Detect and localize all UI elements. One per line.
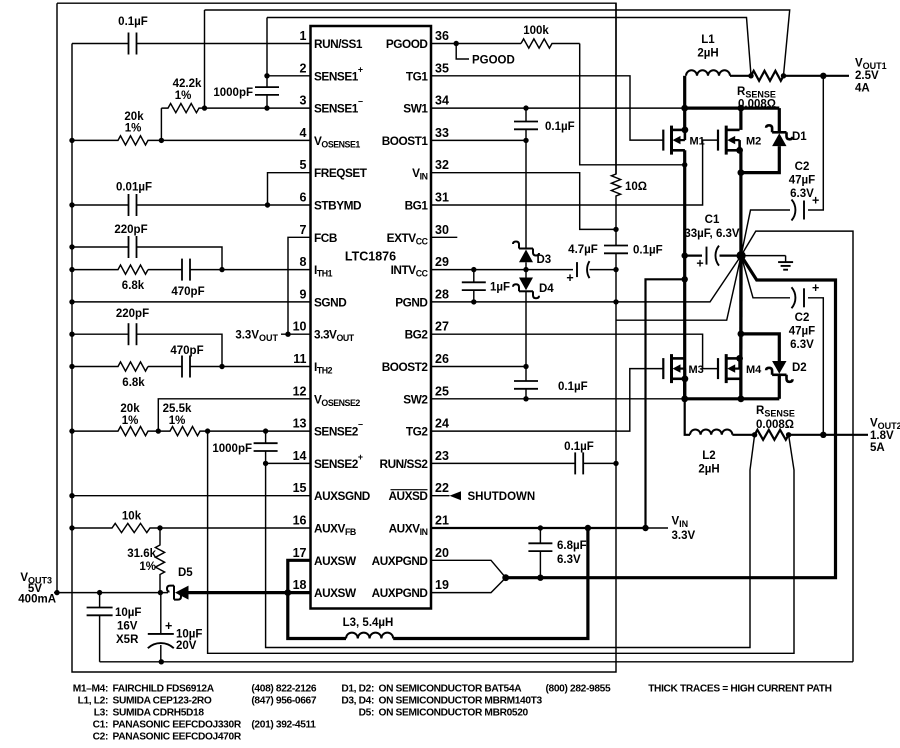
svg-text:M1–M4:: M1–M4:: [73, 684, 108, 695]
svg-text:13: 13: [293, 417, 307, 431]
wire SW2 row pin25: [431, 398, 685, 400]
wire M4 drain to SW2 row: [739, 379, 742, 399]
svg-text:C2: C2: [795, 161, 810, 173]
svg-text:(847) 956-0667: (847) 956-0667: [251, 696, 316, 707]
node junction VOUT3 at rail x57: [54, 590, 59, 595]
svg-text:BG1: BG1: [405, 199, 429, 213]
node junction ITH1 row: [219, 267, 224, 272]
resistor 20k 1% (feedback divider bottom ch1): [72, 136, 161, 145]
node junction 31.6k bottom / 10uF 20V top: [158, 590, 163, 595]
capacitor 0.1uF (VIN RC): [615, 229, 617, 245]
node junction AUXVIN to drain rail riser: [642, 525, 648, 531]
node junction SW1 boost cap: [523, 105, 528, 110]
svg-text:9: 9: [300, 287, 307, 301]
svg-text:33: 33: [435, 126, 449, 140]
ground symbol at star: [741, 255, 786, 257]
svg-text:C2:: C2:: [93, 732, 108, 743]
svg-text:2: 2: [300, 61, 307, 75]
svg-text:470pF: 470pF: [170, 345, 203, 357]
svg-text:1%: 1%: [122, 415, 139, 427]
svg-text:D5: D5: [178, 567, 193, 579]
svg-text:+: +: [812, 194, 819, 208]
svg-text:25.5k: 25.5k: [163, 403, 192, 415]
svg-text:21: 21: [435, 514, 449, 528]
wire line C: SENSE1+ to RSENSE left terminal (kelvin): [267, 18, 751, 76]
svg-text:34: 34: [435, 94, 449, 108]
svg-text:1%: 1%: [139, 561, 156, 573]
svg-text:400mA: 400mA: [18, 594, 56, 606]
svg-text:6.8k: 6.8k: [122, 377, 145, 389]
svg-text:(800) 282-9855: (800) 282-9855: [546, 684, 611, 695]
node junction 10uF20V to bus: [159, 659, 164, 664]
capacitor 0.1uF (RUN/SS1 soft-start): [72, 43, 128, 45]
wire star to C2 top (VOUT1 bulk cap): [741, 210, 790, 256]
svg-text:2µH: 2µH: [697, 48, 718, 60]
svg-text:D3, D4:: D3, D4:: [341, 696, 374, 707]
svg-text:D2: D2: [792, 362, 807, 374]
resistor 6.8k (ITH2): [72, 362, 148, 371]
node junction ITH2 row: [219, 364, 224, 369]
wire AUXSGND row pin15: [72, 495, 311, 497]
node junction VOUT1: [820, 73, 826, 79]
node junction M3 SW2: [681, 395, 688, 402]
node junction 10uF 16V cap top: [97, 590, 102, 595]
wire BOOST1 chain down to D3 cathode: [525, 140, 527, 248]
svg-text:16V: 16V: [117, 621, 138, 633]
svg-text:PANASONIC EEFCDOJ470R: PANASONIC EEFCDOJ470R: [113, 732, 242, 743]
wire PGND row pin28 to star ground: [431, 256, 741, 302]
node junction 42.2k right end SENSE1-: [202, 105, 207, 110]
wire VOSENSE1 row to IC: [161, 139, 310, 141]
resistor 25.5k 1% (divider ch2): [158, 427, 207, 436]
svg-text:TG2: TG2: [406, 425, 428, 439]
svg-text:5: 5: [300, 158, 307, 172]
wire SENSE1+ row: [267, 75, 311, 77]
svg-text:19: 19: [435, 578, 449, 592]
wire RSENSE to VOUT1: [784, 75, 850, 77]
svg-text:31: 31: [435, 191, 449, 205]
svg-text:42.2k: 42.2k: [173, 78, 202, 90]
resistor 6.8k (ITH1): [72, 265, 148, 274]
svg-text:0.1µF: 0.1µF: [564, 441, 594, 453]
svg-text:6.8µF: 6.8µF: [557, 540, 587, 552]
capacitor 220pF (ITH2 compensation): [72, 333, 128, 335]
wire SGND row pin9: [72, 301, 311, 303]
diode D1 schottky (catch ch1): [741, 146, 779, 173]
node junction BOOST1: [523, 138, 528, 143]
wire FCB pin7 tied down to 3.3VOUT pin10: [288, 237, 311, 334]
node junction AUXPGND tie: [502, 574, 509, 581]
svg-text:ON SEMICONDUCTOR BAT54A: ON SEMICONDUCTOR BAT54A: [379, 684, 523, 695]
svg-text:11: 11: [293, 352, 306, 366]
wire VOSENSE2 pin12 down to divider: [158, 399, 310, 431]
svg-text:30: 30: [435, 223, 449, 237]
svg-text:C1:: C1:: [93, 720, 108, 731]
capacitor C2 47uF 6.3V top: [803, 201, 805, 220]
svg-text:27: 27: [435, 320, 449, 334]
svg-text:THICK TRACES = HIGH CURRENT PA: THICK TRACES = HIGH CURRENT PATH: [648, 684, 831, 695]
svg-text:2.5V: 2.5V: [855, 70, 879, 82]
svg-text:AUXSW: AUXSW: [314, 586, 357, 600]
svg-text:FCB: FCB: [314, 231, 337, 245]
node junction SENSE1+ row: [264, 73, 269, 78]
svg-text:0.008Ω: 0.008Ω: [756, 419, 794, 431]
svg-text:24: 24: [435, 417, 449, 431]
wire AUXSW down to L3: [288, 593, 346, 639]
wire 100k riser down to VIN drain line: [580, 44, 685, 165]
svg-text:100k: 100k: [523, 25, 549, 37]
capacitor 0.1uF (BOOST1 bootstrap): [525, 108, 527, 121]
svg-text:10Ω: 10Ω: [625, 181, 647, 193]
svg-text:36: 36: [435, 29, 449, 43]
svg-text:AUXSW: AUXSW: [314, 554, 357, 568]
node junction SGND rail pin15: [69, 493, 74, 498]
svg-text:L3, 5.4µH: L3, 5.4µH: [343, 617, 394, 629]
svg-text:220pF: 220pF: [114, 224, 147, 236]
wire star to ground-return right rail: [741, 231, 853, 662]
svg-text:AUXPGND: AUXPGND: [372, 586, 429, 600]
transistor M2: [718, 126, 743, 155]
capacitor 6.8uF 6.3V (VIN bypass): [539, 528, 541, 544]
svg-text:17: 17: [293, 546, 307, 560]
svg-text:+: +: [696, 257, 703, 271]
capacitor C1 33uF 6.3V electrolytic: [685, 255, 702, 257]
svg-text:0.1µF: 0.1µF: [118, 16, 148, 28]
svg-text:35: 35: [435, 61, 449, 75]
capacitor 10uF 20V electrolytic (AUX): [160, 593, 162, 634]
node junctions divider ch2: [69, 428, 74, 433]
svg-text:47µF: 47µF: [789, 175, 815, 187]
svg-text:L2: L2: [702, 450, 715, 462]
node junction M4 SW2: [738, 395, 745, 402]
svg-text:0.1µF: 0.1µF: [545, 121, 575, 133]
node junction SENSE1- row at 1000pF: [264, 105, 269, 110]
svg-text:1%: 1%: [125, 123, 142, 135]
node junction SW2 boost cap: [523, 396, 528, 401]
node junction M4 source / D2 branch: [738, 331, 745, 338]
svg-text:RUN/SS2: RUN/SS2: [380, 457, 429, 471]
svg-text:+: +: [165, 619, 172, 633]
wire AUXPGND pins 20 and 19 funnel: [431, 560, 506, 577]
wire AUXSD stub pin22 with shutdown arrow: [431, 495, 450, 497]
svg-text:D3: D3: [537, 254, 552, 266]
svg-text:6.8k: 6.8k: [122, 280, 145, 292]
node junction FCB tie at 3.3VOUT: [285, 332, 290, 337]
svg-text:16: 16: [293, 514, 307, 528]
resistor 31.6k 1% (AUX feedback bottom): [155, 528, 164, 593]
svg-text:ON SEMICONDUCTOR MBR0520: ON SEMICONDUCTOR MBR0520: [379, 708, 529, 719]
svg-text:3: 3: [300, 94, 307, 108]
svg-text:M3: M3: [689, 364, 704, 376]
svg-text:BOOST1: BOOST1: [382, 134, 429, 148]
capacitor 4.7uF electrolytic (INTVCC): [576, 262, 578, 277]
wire M2 source down to star: [739, 150, 742, 398]
node junction INTVCC 1uF: [471, 267, 476, 272]
svg-text:33µF, 6.3V: 33µF, 6.3V: [684, 228, 740, 240]
svg-text:L1: L1: [701, 34, 715, 46]
svg-text:PANASONIC EEFCDOJ330R: PANASONIC EEFCDOJ330R: [113, 720, 242, 731]
node junction M1 drain VIN line: [682, 162, 687, 167]
wire L2 to RSENSE2: [732, 434, 754, 436]
svg-text:STBYMD: STBYMD: [314, 199, 362, 213]
inductor L2 2uH: [690, 429, 732, 434]
svg-text:SW2: SW2: [403, 392, 428, 406]
wire SW1 row: [431, 107, 685, 109]
wire star to C2 bottom (VOUT2 bulk cap): [741, 256, 790, 298]
svg-text:PGOOD: PGOOD: [472, 55, 515, 67]
svg-text:14: 14: [293, 449, 307, 463]
wire PGOOD row pin36 with 100k pullup: [431, 43, 521, 45]
svg-text:X5R: X5R: [116, 634, 139, 646]
svg-text:15: 15: [293, 481, 307, 495]
svg-text:4.7µF: 4.7µF: [568, 244, 598, 256]
transistor M1: [663, 126, 688, 155]
node junction EXTV RC node: [613, 227, 618, 232]
svg-text:25: 25: [435, 384, 449, 398]
capacitor 470pF (ITH2): [148, 366, 182, 368]
svg-text:2µH: 2µH: [698, 464, 719, 476]
svg-text:0.008Ω: 0.008Ω: [738, 99, 776, 111]
wire BG2 row pin27 to M4 gate: [431, 334, 718, 368]
transistor M3: [663, 354, 688, 383]
svg-text:20: 20: [435, 546, 449, 560]
svg-text:SHUTDOWN: SHUTDOWN: [468, 491, 536, 503]
svg-text:7: 7: [300, 223, 307, 237]
svg-text:ON SEMICONDUCTOR MBRM140T3: ON SEMICONDUCTOR MBRM140T3: [379, 696, 543, 707]
svg-text:TG1: TG1: [406, 69, 428, 83]
wire VIN pin32 row to 10ohm RC: [431, 173, 616, 230]
svg-text:L1, L2:: L1, L2:: [78, 696, 108, 707]
wire SENSE2+ row: [266, 462, 311, 464]
node junction FREQSET/STBYMD: [265, 202, 270, 207]
wire TG2 row pin24 to M3 gate: [431, 369, 663, 432]
svg-text:20V: 20V: [176, 640, 197, 652]
node junction AUXSW pins 17-18 tie: [284, 589, 291, 596]
svg-text:20k: 20k: [124, 111, 144, 123]
node junction BOOST2: [523, 364, 528, 369]
svg-text:+: +: [812, 281, 819, 295]
svg-text:0.01µF: 0.01µF: [116, 182, 152, 194]
svg-text:10µF: 10µF: [176, 629, 202, 641]
svg-text:D4: D4: [539, 283, 554, 295]
wire AUXSW pin17 to pin18 tie: [288, 560, 311, 592]
wire bottom ground bus: [100, 661, 853, 663]
inductor L1 2uH: [686, 70, 730, 76]
svg-text:32: 32: [435, 158, 449, 172]
svg-text:4A: 4A: [855, 83, 870, 95]
node junction VIN rail riser: [682, 276, 688, 282]
diode D2 schottky (catch ch2): [741, 334, 779, 361]
capacitor 220pF (ITH1 compensation): [72, 246, 128, 248]
capacitor 0.1uF (BOOST2 bootstrap): [525, 367, 527, 382]
resistor RSENSE 0.008ohm ch2: [755, 430, 789, 440]
diode D3 schottky (bootstrap ch1): [519, 250, 533, 263]
svg-text:29: 29: [435, 255, 449, 269]
svg-text:0.1µF: 0.1µF: [558, 381, 588, 393]
node junction AUXVIN L3 riser: [585, 525, 591, 531]
svg-text:1%: 1%: [175, 90, 192, 102]
svg-text:3.3V: 3.3V: [672, 530, 696, 542]
wire riser from SENSE1+ 1000pF node up to line C: [266, 18, 268, 76]
svg-text:1.8V: 1.8V: [870, 430, 894, 442]
IC U1 LTC1876 package outline: [311, 26, 432, 609]
svg-text:D1, D2:: D1, D2:: [341, 684, 374, 695]
svg-text:22: 22: [435, 481, 449, 495]
svg-text:LTC1876: LTC1876: [345, 250, 396, 264]
wire 3.3VOUT pin10: [281, 333, 311, 335]
wire AUXVFB row: [160, 527, 311, 529]
wire L1 to RSENSE: [730, 75, 751, 77]
svg-text:10: 10: [293, 320, 307, 334]
capacitor 1000pF (channel 2 sense filter): [265, 431, 267, 443]
svg-text:D5:: D5:: [359, 708, 374, 719]
node junction INTVCC at x616: [613, 267, 618, 272]
node junction PGND 1uF: [471, 299, 476, 304]
svg-text:SW1: SW1: [403, 102, 428, 116]
svg-text:D1: D1: [792, 131, 807, 143]
svg-text:SUMIDA CDRH5D18: SUMIDA CDRH5D18: [113, 708, 205, 719]
wire PGND branch y320 to star: [616, 256, 741, 321]
wire line B: VOSENSE1 divider top to RSENSE right terminal (kelvin): [205, 10, 790, 75]
wire SW2 thick row: [685, 397, 780, 400]
wire RSENSE2 to VOUT2: [789, 434, 868, 436]
svg-text:23: 23: [435, 449, 449, 463]
svg-text:4: 4: [300, 126, 307, 140]
wire RUN/SS2 row pin23 with 0.1uF: [431, 462, 575, 464]
svg-text:SUMIDA CEP123-2RO: SUMIDA CEP123-2RO: [113, 696, 212, 707]
node junction SENSE2+ at 1000pF: [263, 461, 268, 466]
svg-text:28: 28: [435, 287, 449, 301]
capacitor 0.01uF (STBYMD): [72, 204, 128, 206]
capacitor C2 47uF 6.3V bottom: [803, 288, 805, 307]
wire M4 column star to source: [739, 256, 742, 359]
svg-text:C2: C2: [795, 312, 810, 324]
svg-text:L3:: L3:: [94, 708, 108, 719]
wire riser from 42.2k junction up to line B: [204, 10, 206, 108]
wire AUXSW thick row from D5 to IC pin18: [189, 591, 311, 594]
svg-text:1000pF: 1000pF: [213, 87, 253, 99]
wire AUXVIN row pin21 VIN 3.3V: [431, 527, 646, 529]
svg-text:10k: 10k: [122, 511, 142, 523]
diode D5 schottky (AUX output): [175, 586, 189, 600]
node junction SGND rail at 220pF: [69, 244, 74, 249]
wire L3 to VIN riser thick: [393, 528, 588, 639]
diode D4 schottky (bootstrap ch2): [525, 270, 527, 278]
node junction M2 source D1 branch: [738, 169, 745, 176]
inductor L3 5.4uH: [346, 633, 393, 639]
capacitor 10uF 16V X5R (VOUT3 bypass): [99, 593, 101, 608]
wire SW1 thick rail with L1 drop: [683, 76, 686, 108]
node junction SW1 rail M1: [681, 105, 688, 112]
svg-text:M2: M2: [746, 136, 761, 148]
node junction C1 to VIN rail: [682, 252, 688, 258]
svg-text:C1: C1: [705, 214, 720, 226]
svg-text:31.6k: 31.6k: [127, 548, 156, 560]
node junction RSENSE terminals ch1: [748, 73, 753, 78]
svg-text:AUXSD: AUXSD: [388, 489, 428, 503]
svg-text:0.1µF: 0.1µF: [633, 245, 663, 257]
wire VOUT3 row thin part: [54, 592, 168, 594]
wire TG1 row to M1 gate: [431, 76, 663, 140]
svg-text:M1: M1: [690, 136, 705, 148]
svg-text:FREQSET: FREQSET: [314, 166, 368, 180]
svg-text:FAIRCHILD FDS6912A: FAIRCHILD FDS6912A: [113, 684, 215, 695]
capacitor 1000pF (channel 1 sense filter): [266, 76, 268, 88]
svg-text:6: 6: [300, 191, 307, 205]
node junction SGND rail at 0.01uF: [69, 202, 74, 207]
svg-text:220pF: 220pF: [116, 308, 149, 320]
resistor 42.2k 1% (feedback divider top): [160, 108, 162, 140]
resistor 20k 1% (divider ch2): [72, 427, 158, 436]
svg-text:SGND: SGND: [314, 295, 347, 309]
wire BOOST1 row pin33: [431, 139, 526, 141]
svg-text:1%: 1%: [169, 415, 186, 427]
svg-text:+: +: [566, 271, 573, 285]
wire x616 chain INTVCC to PGND: [615, 270, 617, 302]
wire PGND x616 down chain: [615, 302, 617, 672]
net label PGOOD stub: [456, 44, 469, 60]
node junction PGND x616: [613, 299, 618, 304]
wire SGND rail x72 from pin1 row down to bottom bus: [72, 44, 616, 673]
wire left rail x57 from line A down to VOUT3 node: [56, 3, 58, 592]
wire kelvin SENSE2+ from 1000pF node down and right to RSENSE2 inductor side: [266, 435, 755, 648]
svg-text:RUN/SS1: RUN/SS1: [314, 37, 363, 51]
svg-text:470pF: 470pF: [171, 286, 204, 298]
node junction divider VOSENSE1: [159, 138, 164, 143]
svg-text:6.3V: 6.3V: [790, 188, 814, 200]
svg-text:12: 12: [293, 384, 307, 398]
svg-text:1µF: 1µF: [490, 282, 510, 294]
node junction AUXVIN 6.8uF: [538, 525, 543, 530]
node junction RUN/SS2 cap to ground chain: [613, 461, 618, 466]
svg-text:5A: 5A: [870, 442, 885, 454]
wire INTVCC row pin29: [431, 269, 573, 271]
svg-text:AUXPGND: AUXPGND: [372, 554, 429, 568]
node junction VOUT2: [820, 432, 826, 438]
svg-text:M4: M4: [746, 364, 762, 376]
resistor RSENSE 0.008ohm ch1: [751, 71, 784, 81]
wire SENSE1- row: [205, 107, 311, 109]
svg-text:6.3V: 6.3V: [790, 339, 814, 351]
svg-text:(408) 822-2126: (408) 822-2126: [251, 684, 316, 695]
svg-text:PGND: PGND: [395, 295, 428, 309]
node junction 6.8uF ground: [537, 575, 543, 581]
wire kelvin SENSE2- from pin13 junction down and right to RSENSE2 output side: [208, 431, 794, 653]
node junctions AUXVFB: [69, 525, 74, 530]
svg-text:1: 1: [300, 29, 307, 43]
transistor M4: [718, 354, 743, 383]
svg-text:6.3V: 6.3V: [557, 554, 581, 566]
wire BOOST2 row pin26: [431, 366, 526, 368]
node junction INTVCC D3/D4: [523, 267, 528, 272]
capacitor 1uF (INTVCC local): [473, 270, 475, 283]
wire BG1 row pin31 to M2 gate: [431, 140, 718, 205]
svg-text:BG2: BG2: [405, 328, 429, 342]
resistor 10k (AUX feedback top): [72, 523, 160, 532]
wire SW2 down to L2: [685, 399, 690, 435]
svg-text:1000pF: 1000pF: [212, 443, 252, 455]
svg-text:26: 26: [435, 352, 449, 366]
wire M3 source to SW2 row: [683, 379, 686, 399]
node star ground junction (C1 minus): [737, 251, 746, 260]
wire SENSE2- row to IC: [208, 430, 311, 432]
wire M1 source to SW rail / drain down VIN rail: [683, 108, 686, 130]
wire line A: VOUT3 5V rail from top-left corner to 10-ohm resistor: [57, 3, 616, 174]
node junction SGND rail pin9: [69, 299, 74, 304]
svg-text:AUXSGND: AUXSGND: [314, 489, 371, 503]
svg-text:BOOST2: BOOST2: [382, 360, 429, 374]
capacitor 470pF (ITH1): [148, 269, 182, 271]
